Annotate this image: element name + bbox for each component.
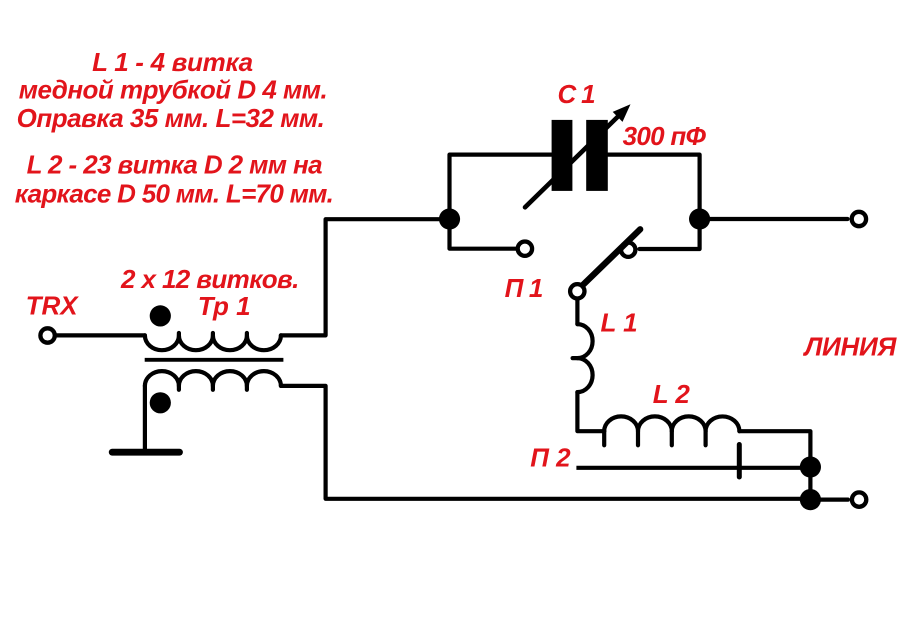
svg-text:2 x 12 витков.: 2 x 12 витков.	[120, 264, 299, 294]
svg-text:каркасе D 50 мм. L=70 мм.: каркасе D 50 мм. L=70 мм.	[15, 178, 333, 208]
svg-text:П 2: П 2	[530, 442, 571, 472]
svg-text:медной трубкой D 4 мм.: медной трубкой D 4 мм.	[19, 75, 328, 105]
svg-text:Тр 1: Тр 1	[198, 291, 251, 321]
svg-text:C 1: C 1	[558, 79, 596, 109]
svg-text:ЛИНИЯ: ЛИНИЯ	[803, 331, 898, 361]
svg-text:L 1 - 4 витка: L 1 - 4 витка	[92, 47, 253, 77]
svg-text:L 2 - 23 витка D 2 мм на: L 2 - 23 витка D 2 мм на	[27, 149, 323, 179]
svg-text:300 пФ: 300 пФ	[623, 121, 707, 151]
svg-text:Оправка 35 мм. L=32 мм.: Оправка 35 мм. L=32 мм.	[17, 103, 325, 133]
svg-text:TRX: TRX	[26, 290, 80, 320]
svg-text:L 2: L 2	[653, 379, 691, 409]
svg-text:L 1: L 1	[601, 307, 638, 337]
svg-text:П 1: П 1	[505, 273, 543, 303]
